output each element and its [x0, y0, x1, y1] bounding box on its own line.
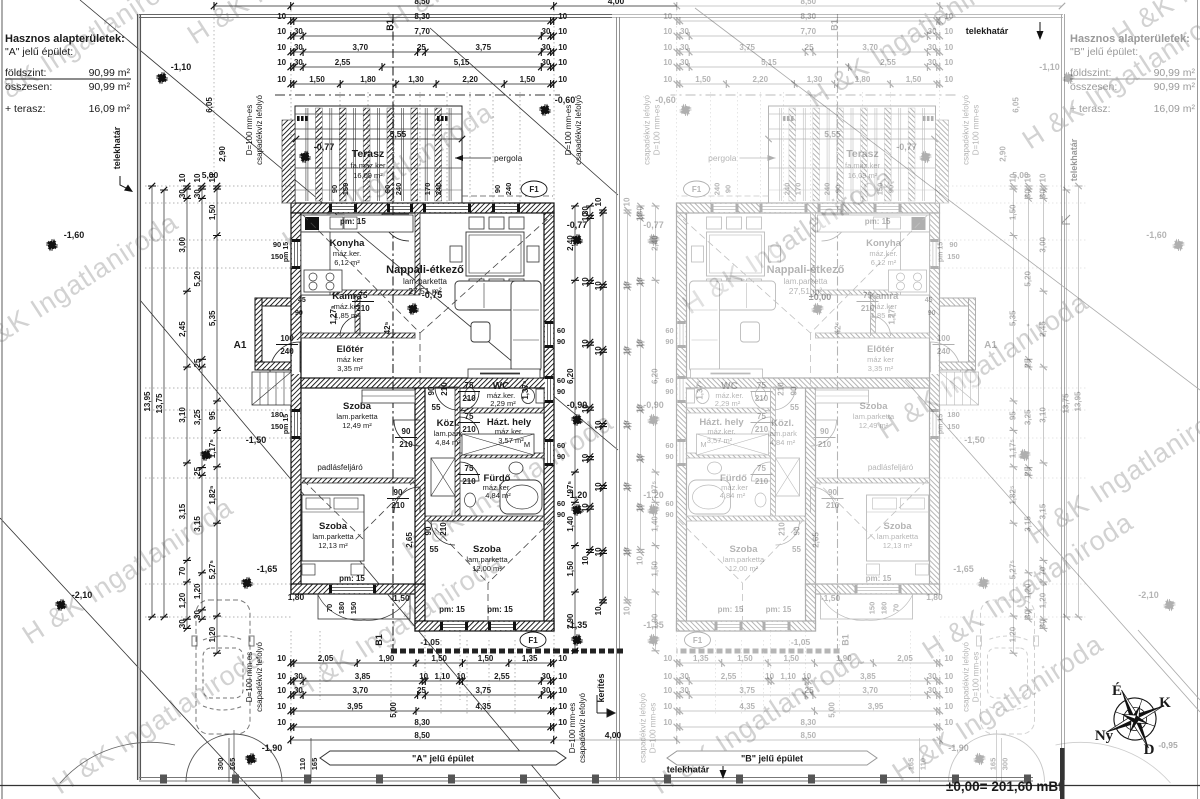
svg-text:3,00: 3,00 [1039, 236, 1048, 252]
svg-text:1,80: 1,80 [926, 592, 943, 602]
svg-text:6,20: 6,20 [566, 368, 575, 384]
svg-text:10: 10 [623, 606, 632, 615]
svg-text:csapadékvíz lefolyó: csapadékvíz lefolyó [643, 95, 652, 165]
svg-text:4,84 m²: 4,84 m² [770, 438, 796, 447]
svg-text:3,10: 3,10 [1039, 407, 1048, 423]
svg-text:5,00: 5,00 [202, 170, 219, 180]
svg-text:90: 90 [790, 386, 799, 395]
svg-text:1,20: 1,20 [1024, 583, 1033, 599]
svg-text:4,00: 4,00 [608, 0, 625, 6]
svg-text:10: 10 [594, 346, 603, 355]
svg-text:F1: F1 [529, 185, 539, 194]
outer walls building A [677, 203, 940, 213]
svg-text:lam.parketta: lam.parketta [403, 277, 448, 286]
banner B jelu epulet [667, 751, 877, 765]
svg-text:-1,35: -1,35 [567, 620, 588, 630]
svg-text:90: 90 [887, 185, 896, 193]
left vertical chains [1078, 186, 1080, 617]
svg-text:30: 30 [1024, 189, 1033, 198]
svg-text:25: 25 [1024, 466, 1033, 475]
svg-text:Nappali-étkező: Nappali-étkező [386, 264, 464, 276]
svg-text:É: É [1112, 682, 1122, 699]
svg-text:10: 10 [944, 43, 953, 52]
svg-text:60: 60 [557, 376, 565, 385]
svg-text:60: 60 [665, 499, 673, 508]
svg-text:30: 30 [680, 686, 689, 695]
svg-text:110: 110 [298, 758, 307, 770]
svg-text:30: 30 [542, 686, 551, 695]
svg-text:13,95: 13,95 [143, 391, 152, 412]
svg-text:30: 30 [928, 58, 937, 67]
svg-text:150: 150 [947, 422, 960, 431]
svg-text:10: 10 [558, 718, 567, 727]
svg-text:5,00: 5,00 [389, 702, 398, 718]
svg-text:90: 90 [665, 337, 673, 346]
svg-text:-1,20: -1,20 [643, 490, 664, 500]
svg-text:12,13 m²: 12,13 m² [318, 541, 348, 550]
svg-text:30: 30 [680, 43, 689, 52]
bottom fence with posts [139, 778, 1033, 782]
svg-text:10: 10 [581, 453, 590, 462]
svg-text:10: 10 [558, 654, 567, 663]
svg-text:D=100 mm-es: D=100 mm-es [972, 652, 981, 702]
svg-text:90: 90 [828, 488, 837, 497]
svg-text:10: 10 [456, 672, 465, 681]
svg-text:10: 10 [277, 43, 286, 52]
svg-text:42⁵: 42⁵ [383, 321, 392, 334]
svg-text:13,75: 13,75 [155, 393, 164, 414]
svg-text:1,50: 1,50 [695, 75, 711, 84]
svg-text:70: 70 [892, 604, 901, 612]
svg-text:A1: A1 [984, 340, 997, 351]
svg-text:10: 10 [944, 75, 953, 84]
svg-text:10: 10 [623, 346, 632, 355]
svg-text:60: 60 [665, 376, 673, 385]
svg-text:Hasznos alapterületek:: Hasznos alapterületek: [5, 33, 125, 45]
svg-text:2,40: 2,40 [651, 235, 660, 251]
svg-text:30: 30 [542, 43, 551, 52]
svg-text:Szoba: Szoba [319, 521, 348, 532]
svg-text:10: 10 [277, 12, 286, 21]
svg-text:1,50: 1,50 [651, 560, 660, 576]
svg-text:5,35: 5,35 [1009, 310, 1018, 326]
svg-text:Terasz: Terasz [352, 148, 385, 160]
svg-text:10: 10 [277, 672, 286, 681]
svg-text:180: 180 [880, 602, 889, 615]
svg-text:pm 15: pm 15 [938, 414, 945, 434]
svg-text:90: 90 [665, 510, 673, 519]
svg-text:7,70: 7,70 [801, 27, 817, 36]
svg-text:8,50: 8,50 [414, 0, 430, 6]
svg-text:-0,90: -0,90 [643, 400, 664, 410]
svg-text:30: 30 [680, 27, 689, 36]
svg-text:8,50: 8,50 [414, 731, 430, 740]
svg-text:4,00: 4,00 [605, 730, 622, 740]
svg-text:90: 90 [427, 386, 436, 395]
porch with steps [318, 594, 410, 619]
svg-text:30: 30 [680, 58, 689, 67]
svg-text:1,20: 1,20 [208, 626, 217, 642]
svg-text:csapadékvíz lefolyó: csapadékvíz lefolyó [962, 95, 971, 165]
svg-text:1,80: 1,80 [288, 592, 305, 602]
svg-text:2,65: 2,65 [812, 532, 821, 548]
svg-text:10: 10 [581, 503, 590, 512]
svg-text:-0,77: -0,77 [567, 220, 588, 230]
svg-text:5,55: 5,55 [824, 129, 841, 139]
svg-text:8,50: 8,50 [801, 0, 817, 6]
svg-text:210: 210 [826, 501, 840, 510]
svg-text:8,30: 8,30 [414, 12, 430, 21]
svg-text:90: 90 [949, 240, 957, 249]
svg-text:máz.ker: máz.ker [334, 302, 361, 311]
svg-text:1,80: 1,80 [360, 75, 376, 84]
svg-text:42⁵: 42⁵ [834, 321, 843, 334]
svg-text:D=100 mm-es: D=100 mm-es [564, 105, 573, 155]
svg-text:máz.ker.: máz.ker. [707, 427, 735, 436]
svg-text:3,15: 3,15 [1039, 503, 1048, 519]
svg-text:90: 90 [330, 185, 339, 193]
svg-text:90: 90 [724, 185, 733, 193]
svg-text:összesen:: összesen: [5, 81, 52, 93]
furdo fixtures [689, 480, 731, 514]
svg-text:4,84 m²: 4,84 m² [485, 491, 511, 500]
svg-text:-0,77: -0,77 [643, 220, 664, 230]
attic ladder [431, 458, 455, 496]
svg-text:máz.ker.: máz.ker. [495, 427, 523, 436]
svg-text:210: 210 [777, 382, 786, 396]
svg-text:5,00: 5,00 [828, 702, 837, 718]
svg-text:210: 210 [755, 394, 769, 403]
svg-text:30: 30 [928, 672, 937, 681]
svg-text:90: 90 [402, 427, 411, 436]
svg-text:3,70: 3,70 [353, 43, 369, 52]
svg-text:150: 150 [868, 602, 877, 615]
bottom dimension chains [291, 662, 554, 664]
svg-text:+ terasz:: + terasz: [5, 103, 46, 115]
svg-text:3,25: 3,25 [193, 409, 202, 425]
svg-text:1,50: 1,50 [906, 75, 922, 84]
svg-text:2,20: 2,20 [462, 75, 478, 84]
svg-text:90: 90 [834, 185, 843, 193]
svg-text:3,15: 3,15 [193, 516, 202, 532]
svg-text:5,00: 5,00 [1012, 170, 1029, 180]
svg-text:D=100 mm-es: D=100 mm-es [972, 105, 981, 155]
svg-text:10: 10 [636, 503, 645, 512]
dining table and chairs [707, 232, 765, 276]
svg-text:75: 75 [465, 464, 474, 473]
svg-text:90: 90 [793, 526, 802, 535]
svg-text:7,70: 7,70 [414, 27, 430, 36]
svg-text:240: 240 [434, 183, 443, 196]
svg-text:150: 150 [349, 602, 358, 615]
svg-text:1,37⁵: 1,37⁵ [696, 380, 705, 400]
svg-text:10: 10 [636, 453, 645, 462]
svg-text:16,09 m²: 16,09 m² [89, 103, 131, 115]
svg-text:30: 30 [193, 610, 202, 619]
svg-text:90,99 m²: 90,99 m² [1154, 81, 1196, 93]
svg-text:10: 10 [636, 556, 645, 565]
drain diagonal lines plot A [0, 0, 618, 799]
svg-text:10: 10 [944, 686, 953, 695]
svg-text:-1,50: -1,50 [246, 435, 267, 445]
door arcs [931, 342, 961, 372]
svg-text:-1,05: -1,05 [791, 637, 811, 647]
terrace [295, 106, 462, 203]
compass rose [1092, 676, 1177, 761]
sheet border [1, 0, 3, 799]
svg-text:70: 70 [178, 566, 187, 575]
svg-text:90: 90 [394, 488, 403, 497]
svg-text:D=100 mm-es: D=100 mm-es [653, 105, 662, 155]
svg-text:30: 30 [680, 672, 689, 681]
svg-text:Ny: Ny [1095, 728, 1114, 744]
svg-text:csapadékvíz lefolyó: csapadékvíz lefolyó [578, 693, 587, 763]
svg-text:10: 10 [558, 58, 567, 67]
svg-text:45: 45 [298, 297, 306, 304]
svg-text:Szoba: Szoba [884, 521, 913, 532]
svg-text:1,37⁵: 1,37⁵ [521, 380, 530, 400]
svg-text:10: 10 [581, 556, 590, 565]
svg-text:fa.máz.ker: fa.máz.ker [845, 161, 881, 170]
svg-text:10: 10 [944, 654, 953, 663]
svg-text:1,20: 1,20 [1009, 626, 1018, 642]
svg-text:16,09 m²: 16,09 m² [848, 171, 878, 180]
svg-text:165: 165 [989, 758, 998, 771]
svg-text:10: 10 [944, 672, 953, 681]
svg-text:máz.ker: máz.ker [870, 302, 897, 311]
dashed roof projection lines [679, 215, 928, 620]
svg-text:75: 75 [465, 412, 474, 421]
svg-text:100: 100 [280, 334, 294, 343]
svg-text:csapadékvíz lefolyó: csapadékvíz lefolyó [639, 693, 648, 763]
svg-text:165: 165 [907, 758, 916, 771]
svg-text:Közl.: Közl. [771, 418, 794, 429]
svg-text:3,10: 3,10 [178, 407, 187, 423]
entry bay [255, 298, 291, 306]
svg-text:"B" jelű épület:: "B" jelű épület: [1070, 46, 1138, 58]
svg-text:F1: F1 [528, 636, 538, 645]
svg-text:210: 210 [440, 382, 449, 396]
svg-text:210: 210 [755, 477, 769, 486]
svg-text:-1,90: -1,90 [262, 743, 283, 753]
svg-text:55: 55 [792, 545, 801, 554]
svg-text:lam.parketta: lam.parketta [723, 555, 765, 564]
svg-text:30: 30 [1024, 610, 1033, 619]
svg-text:10: 10 [663, 12, 672, 21]
svg-text:-1,10: -1,10 [171, 62, 192, 72]
svg-text:60: 60 [557, 441, 565, 450]
svg-text:10: 10 [663, 43, 672, 52]
svg-text:25: 25 [417, 43, 426, 52]
svg-text:60: 60 [557, 326, 565, 335]
svg-text:4,35: 4,35 [739, 702, 755, 711]
svg-text:10: 10 [944, 718, 953, 727]
svg-text:telekhatár: telekhatár [966, 26, 1009, 36]
svg-text:1,10: 1,10 [435, 672, 451, 681]
svg-text:pm: 15: pm: 15 [718, 605, 744, 614]
svg-text:1,85 m²: 1,85 m² [871, 311, 897, 320]
svg-text:210: 210 [462, 394, 476, 403]
svg-text:5,35: 5,35 [208, 310, 217, 326]
svg-text:60: 60 [665, 441, 673, 450]
svg-text:55: 55 [430, 545, 439, 554]
svg-text:10: 10 [636, 277, 645, 286]
svg-text:90: 90 [383, 185, 392, 193]
svg-text:lam.parketta: lam.parketta [783, 277, 828, 286]
svg-text:10: 10 [558, 43, 567, 52]
svg-text:1,50: 1,50 [784, 654, 800, 663]
svg-text:5,27⁵: 5,27⁵ [1009, 560, 1018, 580]
svg-text:10: 10 [178, 173, 187, 182]
svg-text:B1: B1 [374, 634, 384, 646]
top dimension chains [291, 5, 554, 7]
svg-text:10: 10 [558, 686, 567, 695]
svg-text:1,50: 1,50 [566, 560, 575, 576]
terrace [769, 106, 936, 203]
svg-text:2,29 m²: 2,29 m² [490, 399, 516, 408]
svg-text:padlásfeljáró: padlásfeljáró [317, 463, 363, 472]
outside steps [940, 372, 979, 405]
svg-text:10: 10 [594, 482, 603, 491]
svg-text:180: 180 [271, 410, 284, 419]
top dimension chains [677, 5, 940, 7]
svg-text:1,20: 1,20 [1039, 592, 1048, 608]
svg-text:12,00 m²: 12,00 m² [472, 564, 502, 573]
svg-text:D=100 mm-es: D=100 mm-es [245, 652, 254, 702]
svg-text:300: 300 [216, 758, 225, 771]
svg-text:1,82⁵: 1,82⁵ [1009, 485, 1018, 505]
svg-text:F1: F1 [693, 636, 703, 645]
svg-text:-0,60: -0,60 [555, 95, 576, 105]
svg-text:10: 10 [944, 702, 953, 711]
svg-text:1,20: 1,20 [193, 583, 202, 599]
svg-text:70: 70 [1039, 566, 1048, 575]
svg-text:16,09 m²: 16,09 m² [1154, 103, 1196, 115]
svg-text:10: 10 [765, 672, 774, 681]
svg-text:3,57 m²: 3,57 m² [707, 436, 733, 445]
svg-text:lam.park: lam.park [768, 429, 797, 438]
svg-text:30: 30 [294, 43, 303, 52]
svg-text:K: K [1159, 695, 1171, 711]
svg-text:10: 10 [594, 281, 603, 290]
svg-text:-1,05: -1,05 [420, 637, 440, 647]
svg-text:25: 25 [1024, 358, 1033, 367]
svg-text:75: 75 [465, 381, 474, 390]
svg-text:1,50: 1,50 [309, 75, 325, 84]
svg-text:2,55: 2,55 [880, 58, 896, 67]
svg-text:1,50: 1,50 [520, 75, 536, 84]
svg-text:95: 95 [208, 411, 217, 420]
svg-text:150: 150 [947, 252, 960, 261]
svg-text:90,99 m²: 90,99 m² [89, 67, 131, 79]
svg-text:25: 25 [805, 43, 814, 52]
svg-text:3,95: 3,95 [347, 702, 363, 711]
svg-text:összesen:: összesen: [1070, 81, 1117, 93]
svg-text:90: 90 [820, 427, 829, 436]
svg-text:földszint:: földszint: [5, 67, 46, 79]
wc fixtures [536, 389, 544, 403]
svg-text:90: 90 [928, 310, 936, 317]
svg-text:90,99 m²: 90,99 m² [89, 81, 131, 93]
svg-text:10: 10 [663, 75, 672, 84]
svg-text:25: 25 [805, 686, 814, 695]
svg-text:30: 30 [294, 58, 303, 67]
svg-text:10: 10 [663, 654, 672, 663]
interior partitions [811, 213, 816, 295]
svg-text:Konyha: Konyha [330, 238, 366, 249]
svg-text:csapadékvíz lefolyó: csapadékvíz lefolyó [962, 642, 971, 712]
banner A jelu epulet [320, 751, 566, 765]
svg-text:±0,00= 201,60 mBf: ±0,00= 201,60 mBf [946, 779, 1063, 794]
svg-text:10: 10 [594, 197, 603, 206]
windows [874, 204, 902, 212]
svg-text:45: 45 [925, 297, 933, 304]
svg-text:1,50: 1,50 [478, 654, 494, 663]
svg-text:pm: 15: pm: 15 [487, 605, 513, 614]
svg-text:-2,10: -2,10 [1138, 590, 1159, 600]
svg-text:1,35: 1,35 [522, 654, 538, 663]
coffee table [741, 322, 760, 342]
entry bay [940, 298, 976, 306]
svg-text:Konyha: Konyha [866, 238, 902, 249]
svg-text:pm 15: pm 15 [938, 242, 945, 262]
hazt washer [697, 434, 769, 455]
svg-text:90: 90 [273, 240, 281, 249]
svg-text:-0,77: -0,77 [314, 142, 335, 152]
svg-text:-0,77: -0,77 [896, 142, 917, 152]
center fence line [617, 17, 620, 780]
svg-text:10: 10 [944, 27, 953, 36]
car [192, 600, 254, 734]
svg-text:3,70: 3,70 [353, 686, 369, 695]
svg-text:1,50: 1,50 [208, 204, 217, 220]
svg-text:30: 30 [928, 27, 937, 36]
svg-text:1,17⁵: 1,17⁵ [1009, 439, 1018, 459]
coffee table [471, 322, 490, 342]
svg-text:1,30: 1,30 [408, 75, 424, 84]
svg-text:90: 90 [665, 452, 673, 461]
svg-text:5,20: 5,20 [193, 270, 202, 286]
svg-text:10: 10 [277, 718, 286, 727]
svg-text:8,30: 8,30 [801, 12, 817, 21]
svg-text:+ terasz:: + terasz: [1070, 103, 1111, 115]
svg-text:3,70: 3,70 [862, 43, 878, 52]
svg-text:1,40: 1,40 [566, 516, 575, 532]
svg-text:2,45: 2,45 [1039, 321, 1048, 337]
svg-text:1,80: 1,80 [855, 75, 871, 84]
svg-text:5,27⁵: 5,27⁵ [208, 560, 217, 580]
svg-text:6,05: 6,05 [205, 97, 214, 113]
svg-text:B1: B1 [830, 19, 840, 31]
svg-text:75: 75 [757, 464, 766, 473]
svg-text:8,30: 8,30 [414, 718, 430, 727]
svg-text:pm 15: pm 15 [283, 242, 290, 262]
svg-text:-1,20: -1,20 [567, 490, 588, 500]
svg-text:30: 30 [178, 619, 187, 628]
svg-text:10: 10 [558, 12, 567, 21]
svg-text:90,99 m²: 90,99 m² [1154, 67, 1196, 79]
svg-text:3,75: 3,75 [739, 43, 755, 52]
svg-text:F1: F1 [692, 185, 702, 194]
car [977, 600, 1039, 734]
svg-text:csapadékvíz lefolyó: csapadékvíz lefolyó [255, 642, 264, 712]
svg-text:pm: 15: pm: 15 [439, 605, 465, 614]
svg-text:10: 10 [663, 27, 672, 36]
svg-text:-1,65: -1,65 [953, 564, 974, 574]
svg-text:1,50: 1,50 [1009, 204, 1018, 220]
svg-text:90: 90 [557, 387, 565, 396]
svg-text:30: 30 [1039, 189, 1048, 198]
